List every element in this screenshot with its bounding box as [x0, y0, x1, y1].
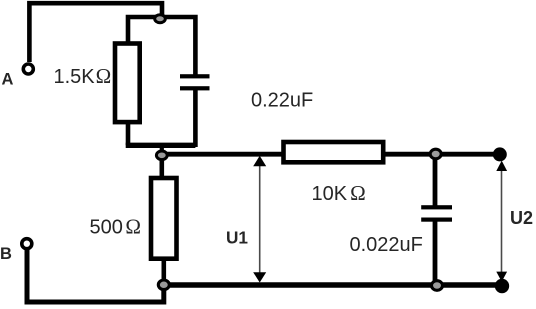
U1 arrowhead down	[253, 272, 266, 282]
terminal dot right top	[493, 147, 507, 161]
wire C2 bottom stub to bottom rail	[433, 222, 438, 286]
terminal A open circle	[23, 64, 33, 74]
svg-text:0.022uF: 0.022uF	[350, 234, 423, 256]
wire C1 bottom stub to parallel bottom rail	[193, 90, 198, 147]
terminal dot right bottom	[495, 279, 509, 293]
wire mid rail from node to 10K resistor	[162, 152, 286, 157]
node bottom-right junction	[432, 281, 443, 291]
U2 arrowhead down	[496, 272, 507, 282]
wire C2 top stub	[433, 154, 438, 206]
node right junction	[430, 149, 441, 159]
wire from terminal A up and over to top node	[29, 3, 162, 62]
svg-text:B: B	[0, 245, 12, 263]
wire parallel-combination bottom rail	[126, 143, 196, 148]
U1 arrowhead up	[253, 156, 266, 167]
resistor R3 10K body	[284, 142, 384, 162]
svg-text:10KΩ: 10KΩ	[312, 181, 366, 205]
wire R2 bottom to bottom node	[162, 258, 167, 285]
U2 arrowhead up	[496, 161, 507, 171]
wire connector bottom rail to mid node	[160, 145, 164, 155]
wire bottom rail	[164, 282, 505, 288]
node bottom-left junction	[158, 280, 169, 290]
capacitor C2 0.022uF top plate	[421, 205, 452, 209]
capacitor C1 0.22uF top plate	[180, 74, 210, 78]
capacitor C2 0.022uF bottom plate	[421, 218, 452, 222]
svg-text:U1: U1	[226, 227, 248, 247]
node top junction	[155, 15, 166, 23]
wire mid node down to resistor R2	[160, 155, 165, 178]
resistor R1 1.5K body	[115, 44, 140, 123]
svg-text:U2: U2	[510, 208, 533, 228]
svg-text:500Ω: 500Ω	[90, 214, 141, 238]
U2 measurement arrow line	[501, 168, 503, 272]
svg-text:1.5KΩ: 1.5KΩ	[54, 64, 112, 88]
wire R1 bottom to parallel bottom rail	[126, 122, 131, 145]
U1 measurement arrow line	[259, 163, 261, 275]
svg-text:0.22uF: 0.22uF	[251, 89, 313, 111]
wire bottom node down left to terminal B	[27, 250, 164, 302]
node mid junction	[156, 151, 167, 160]
wire 10K resistor to right terminal dot	[383, 152, 500, 157]
terminal B open circle	[22, 239, 32, 249]
wire parallel-combination top rail with drops to R1 and C1	[128, 17, 195, 75]
svg-text:A: A	[2, 70, 14, 88]
resistor R2 500 body	[151, 178, 177, 259]
capacitor C1 0.22uF bottom plate	[180, 86, 210, 90]
